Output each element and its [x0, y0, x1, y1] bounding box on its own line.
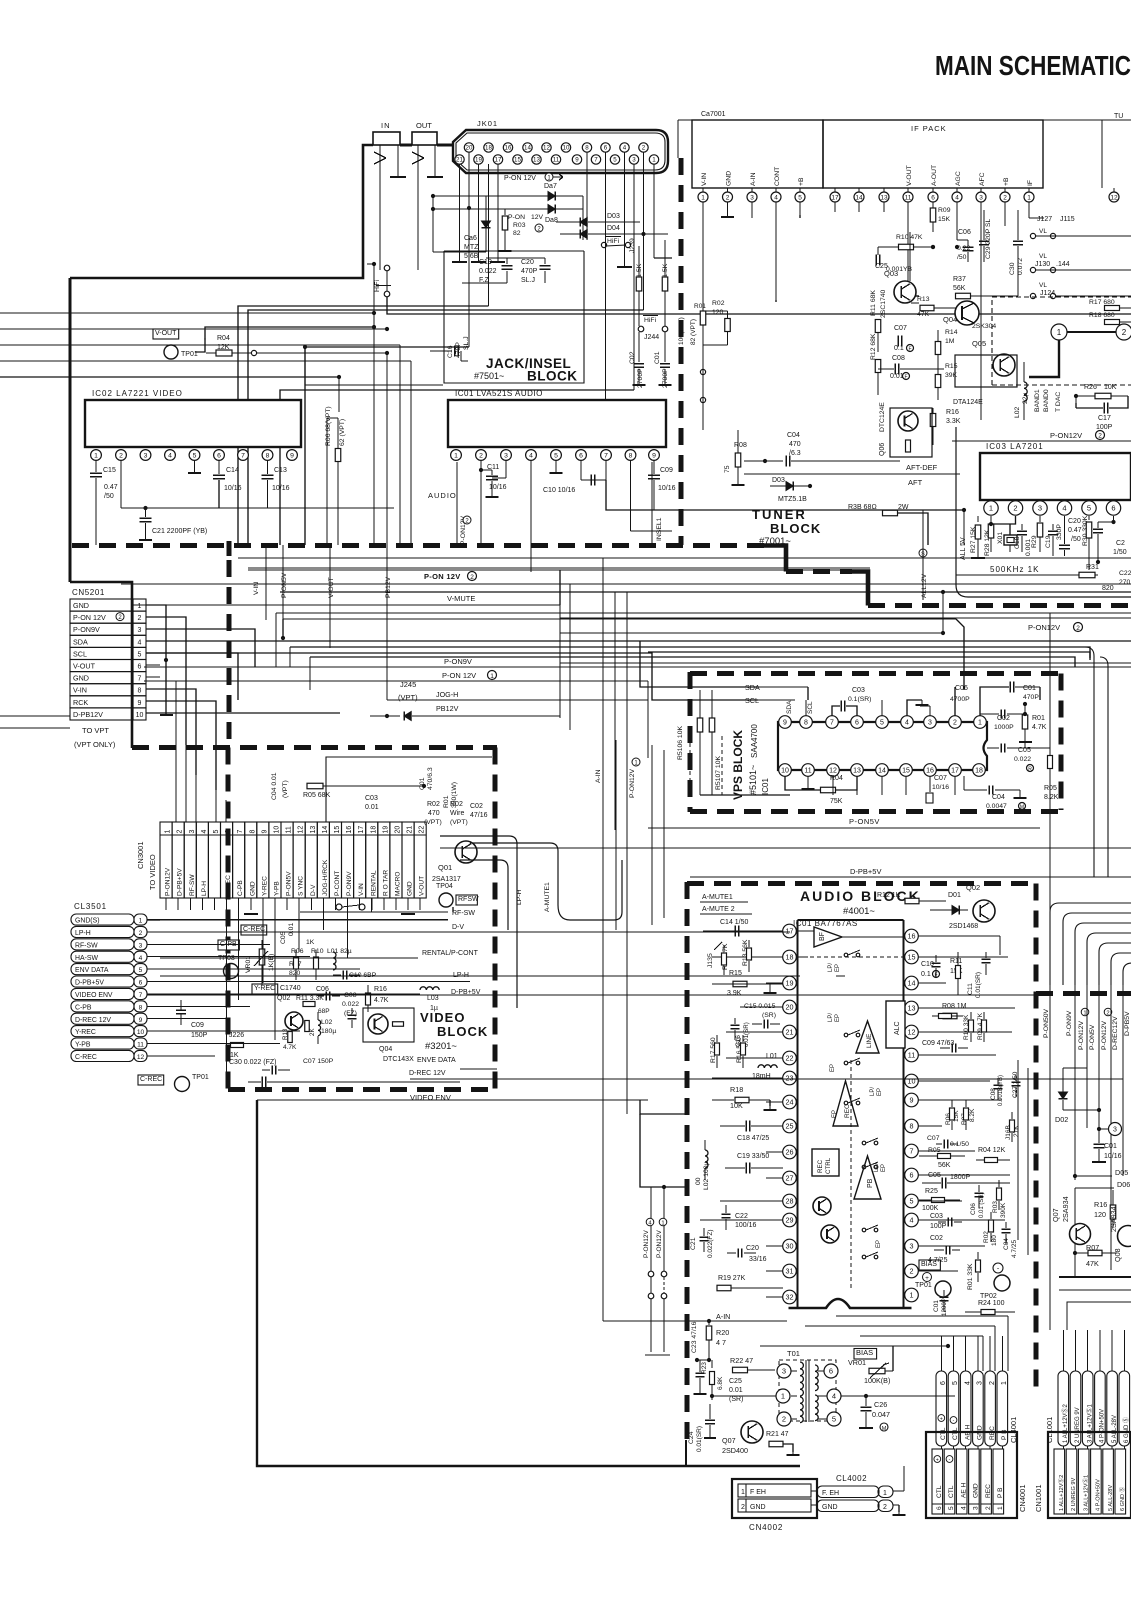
r05 body	[919, 1154, 965, 1159]
resistor R08 1M audio	[942, 1003, 967, 1019]
wire harness y570	[248, 569, 868, 571]
diode Da7	[431, 183, 583, 240]
svg-text:27: 27	[786, 1174, 794, 1183]
svg-text:10K: 10K	[1104, 384, 1117, 391]
svg-text:2: 2	[1122, 328, 1127, 337]
capacitor C10 6BP body	[333, 971, 360, 980]
svg-text:C14 1/50: C14 1/50	[720, 919, 749, 926]
svg-text:1: 1	[1083, 1011, 1086, 1017]
svg-text:9: 9	[138, 700, 142, 707]
svg-text:1: 1	[741, 1489, 745, 1496]
svg-text:1: 1	[883, 1490, 887, 1497]
wire harness y647	[290, 647, 1090, 667]
svg-text:68P: 68P	[318, 1008, 330, 1015]
wire harness right fan	[560, 618, 1131, 635]
net VL J124	[1030, 282, 1131, 299]
svg-text:L02 100µ: L02 100µ	[703, 1161, 710, 1190]
svg-text:1K: 1K	[230, 1052, 239, 1059]
wire v943	[941, 590, 945, 633]
svg-text:C22: C22	[1119, 570, 1131, 577]
svg-text:16: 16	[908, 932, 916, 941]
resistor R5106 10K body	[697, 690, 703, 795]
wire A-IN rail	[595, 713, 603, 1321]
jumper J135	[707, 942, 722, 968]
capacitor C01 470P vps	[980, 682, 1040, 717]
svg-text:TP01: TP01	[192, 1074, 209, 1081]
svg-text:0.022(FZ): 0.022(FZ)	[707, 1229, 714, 1258]
connector CN1001	[1034, 1432, 1131, 1518]
net D-PB+5V label right	[690, 867, 1131, 877]
svg-text:R31: R31	[1086, 564, 1099, 571]
svg-text:C18: C18	[1014, 536, 1021, 549]
wire cn3001 col drops	[225, 800, 227, 822]
svg-text:RENTAL: RENTAL	[370, 870, 377, 896]
svg-text:R21 47: R21 47	[766, 1431, 789, 1438]
testpoint TP01 audio	[915, 1281, 951, 1297]
cap c04 sym	[0, 0, 1, 1]
svg-text:2: 2	[1098, 433, 1102, 440]
capacitor C10 body audio	[932, 955, 941, 978]
svg-text:R5106 10K: R5106 10K	[677, 726, 684, 760]
svg-text:EP: EP	[835, 1014, 841, 1022]
capacitor C03 0.01 vpt	[365, 795, 379, 811]
wire V-IN feed	[0, 311, 376, 329]
svg-text:C08: C08	[990, 1088, 997, 1100]
wire env data run	[460, 1068, 497, 1070]
svg-text:20: 20	[395, 826, 402, 834]
resistor R06 1K	[291, 948, 304, 955]
svg-text:DTC143X: DTC143X	[383, 1056, 414, 1063]
svg-text:13: 13	[908, 1004, 916, 1013]
labels A-MUTE	[700, 894, 752, 914]
svg-text:0.01: 0.01	[365, 804, 379, 811]
wire cl4001 stubs top	[941, 1336, 1002, 1371]
svg-text:C06: C06	[955, 685, 968, 692]
svg-text:1: 1	[454, 452, 458, 459]
wire c05	[0, 0, 1, 1]
connector CN4002	[732, 1479, 817, 1532]
resistor R11 15K audio	[950, 958, 963, 975]
amp LINE	[856, 1021, 879, 1053]
T01 windings	[800, 1360, 818, 1423]
svg-text:Y-PB: Y-PB	[274, 881, 281, 896]
svg-text:P-ON5V: P-ON5V	[849, 817, 880, 826]
svg-text:J127: J127	[1037, 216, 1052, 223]
resistor R14 body	[722, 945, 727, 975]
jumper J244 HiFi	[638, 316, 668, 342]
svg-text:9: 9	[910, 1096, 914, 1105]
svg-text:J244: J244	[644, 334, 659, 341]
label CL4002	[836, 1474, 867, 1483]
resistor R14 27K rot	[722, 943, 729, 970]
wire bias vertical	[885, 1346, 893, 1371]
capacitor C23 47/16 rot	[691, 1321, 698, 1353]
wire rentals	[422, 950, 479, 957]
svg-text:3 ALL+12VⓈ1: 3 ALL+12VⓈ1	[1081, 1475, 1089, 1511]
connector CL4001	[936, 1371, 1018, 1446]
label VIDEO ENV	[410, 1093, 451, 1102]
diode D02	[1055, 1068, 1101, 1124]
svg-text:6: 6	[829, 1367, 833, 1376]
svg-text:2: 2	[119, 452, 123, 459]
IC IC01 LVA521S AUDIO	[448, 389, 666, 447]
svg-text:J226: J226	[229, 1032, 244, 1039]
svg-text:P-ON9V: P-ON9V	[73, 625, 100, 634]
ground arrow OUT	[412, 145, 424, 270]
net D-PB+5V label	[451, 989, 481, 996]
TU pin 12	[1109, 188, 1119, 202]
capacitor C14 1/50	[703, 919, 783, 937]
svg-text:26: 26	[786, 1148, 794, 1157]
svg-text:C01: C01	[654, 351, 661, 364]
svg-text:9: 9	[261, 830, 268, 834]
svg-text:270: 270	[1119, 579, 1131, 586]
jack IN	[373, 121, 400, 145]
svg-text:#4001~: #4001~	[843, 906, 875, 917]
capacitor C23 body	[694, 1360, 707, 1394]
wire vps top pins	[806, 687, 808, 716]
svg-text:1: 1	[652, 157, 656, 164]
ground vps mid	[0, 0, 1, 1]
r25 body	[919, 1198, 960, 1203]
svg-text:3: 3	[504, 452, 508, 459]
capacitor C08 YB rot	[990, 1075, 1004, 1106]
label A-IN bottom	[716, 1312, 730, 1321]
capacitor C06 video	[316, 986, 329, 993]
resistor R10 body audio	[969, 1012, 974, 1042]
svg-text:0.0047: 0.0047	[986, 803, 1007, 810]
svg-text:2: 2	[139, 930, 143, 937]
svg-text:19: 19	[382, 826, 389, 834]
wire rail	[305, 347, 606, 545]
resistor R01 330 1W rot	[443, 782, 458, 808]
capacitor C17 100P	[1075, 396, 1077, 408]
resistor J16B body	[1010, 1112, 1015, 1142]
capacitor C03 0.1(SR)	[832, 687, 871, 716]
c24 sym	[704, 1404, 716, 1438]
wire bus under audio	[606, 480, 966, 545]
IC02 pins 1-9	[91, 450, 298, 461]
wire elbow 1187	[640, 1114, 687, 1187]
svg-text:P-ON5V: P-ON5V	[286, 871, 293, 896]
wire corner bundle right mid	[0, 0, 1, 1]
capacitor C21 body audio	[700, 1228, 709, 1252]
net VL J130 .144	[1030, 253, 1131, 273]
wire SDA route	[640, 641, 758, 687]
svg-text:CN4002: CN4002	[749, 1523, 783, 1532]
svg-text:V-OUT: V-OUT	[73, 662, 96, 671]
svg-text:GND: GND	[407, 881, 414, 896]
wire corridor h860	[460, 860, 508, 930]
svg-text:VL: VL	[1039, 228, 1047, 235]
svg-text:Wire: Wire	[450, 810, 464, 817]
wire pin3	[492, 460, 506, 478]
svg-text:AUDIO BLOCK: AUDIO BLOCK	[800, 888, 921, 904]
svg-text:CL4002: CL4002	[836, 1474, 867, 1483]
svg-text:R03: R03	[513, 222, 526, 229]
block outline jack/insel	[444, 251, 584, 383]
wire left exit 2	[0, 727, 70, 729]
svg-text:3: 3	[138, 627, 142, 634]
svg-text:MAIN SCHEMATIC: MAIN SCHEMATIC	[935, 50, 1131, 81]
svg-text:HiFi: HiFi	[607, 238, 620, 245]
transistor Q06 DTC124E	[879, 402, 932, 457]
svg-text:RF-SW: RF-SW	[189, 874, 196, 896]
svg-text:17: 17	[786, 927, 794, 936]
resistor R12 1K audio	[877, 892, 946, 904]
svg-text:22: 22	[419, 826, 426, 834]
svg-text:GND: GND	[249, 881, 256, 896]
svg-text:75: 75	[724, 465, 731, 473]
wire IF pins drops	[835, 202, 1044, 420]
svg-text:VL: VL	[1039, 282, 1047, 289]
switch cols 15-16	[336, 904, 365, 910]
svg-text:13: 13	[310, 826, 317, 834]
svg-text:P-ON12V: P-ON12V	[1078, 1020, 1085, 1050]
svg-text:4: 4	[910, 1216, 914, 1225]
capacitor C08 0.022 FZ	[342, 992, 359, 1017]
svg-text:PB12V: PB12V	[436, 704, 459, 713]
svg-text:Q01: Q01	[438, 863, 452, 872]
svg-text:R10: R10	[311, 948, 324, 955]
svg-text:C30: C30	[1009, 262, 1016, 275]
svg-text:0.47: 0.47	[104, 484, 118, 491]
svg-text:+B: +B	[1003, 177, 1010, 186]
svg-text:EP: EP	[876, 1240, 882, 1248]
svg-text:6 GND Ⓢ: 6 GND Ⓢ	[1122, 1417, 1130, 1443]
svg-text:0.001B(YB): 0.001B(YB)	[998, 1075, 1004, 1106]
label C-REC box	[138, 1075, 164, 1085]
svg-text:5: 5	[554, 452, 558, 459]
svg-text:19: 19	[475, 157, 482, 164]
svg-text:4: 4	[1062, 504, 1066, 513]
svg-text:Y-REC: Y-REC	[254, 985, 275, 992]
capacitor C16 470P SL.J	[430, 336, 470, 361]
svg-text:8: 8	[139, 1004, 143, 1011]
svg-text:D03: D03	[772, 477, 785, 484]
svg-text:+B: +B	[798, 177, 805, 186]
svg-text:R08: R08	[734, 442, 747, 449]
label BIAS bottom	[854, 1348, 877, 1359]
resistor R17 560 rot	[710, 1037, 717, 1063]
svg-text:GND: GND	[822, 1504, 838, 1511]
svg-text:SDA: SDA	[73, 637, 88, 646]
svg-text:18: 18	[485, 145, 492, 152]
resistor R26 10K	[1074, 384, 1128, 399]
svg-text:A-MUTE 2: A-MUTE 2	[702, 906, 735, 913]
block TU box edge	[1101, 120, 1103, 188]
svg-text:SL.J: SL.J	[463, 336, 470, 350]
svg-text:10/16: 10/16	[489, 484, 507, 491]
capacitor C16 body	[731, 1018, 740, 1040]
svg-text:5: 5	[948, 1506, 955, 1510]
box ALC	[886, 1001, 905, 1048]
testpoint TP04 RFSW	[436, 883, 479, 907]
wire bias net	[841, 1394, 955, 1398]
svg-text:6: 6	[139, 980, 143, 987]
svg-text:C01: C01	[419, 777, 426, 790]
svg-text:LP/: LP/	[828, 1013, 834, 1022]
svg-text:1: 1	[781, 1392, 785, 1401]
capacitor C22 body	[722, 1205, 731, 1230]
svg-text:VIDEO ENV: VIDEO ENV	[410, 1093, 451, 1102]
svg-text:1 ALL+12VⓈ2: 1 ALL+12VⓈ2	[1057, 1475, 1065, 1511]
svg-text:1: 1	[701, 194, 705, 201]
wire vps bottom bus	[700, 794, 790, 796]
transistor Q05	[972, 339, 1015, 376]
svg-text:PB12V: PB12V	[385, 576, 392, 598]
diode D03 MTZ5.1B	[770, 477, 812, 503]
boundary cn5201 dashed to video block	[0, 0, 1, 1]
capacitor C03 body audio	[938, 1218, 962, 1227]
resistor R18 680 box	[1089, 312, 1131, 325]
capacitor C20 470P SL.J	[462, 258, 551, 284]
resistor R16 4.7K video	[374, 986, 389, 1004]
svg-text:2: 2	[910, 1267, 914, 1276]
svg-text:P-ON9V: P-ON9V	[346, 871, 353, 896]
svg-text:P-ON 12V: P-ON 12V	[442, 671, 476, 680]
svg-text:00: 00	[695, 1177, 702, 1185]
svg-text:Q03: Q03	[884, 269, 898, 278]
svg-text:P-ON12V: P-ON12V	[1050, 431, 1082, 440]
capacitor C27 body	[1012, 1075, 1021, 1097]
labels LP/EP internal	[828, 963, 845, 1118]
svg-text:J239: J239	[629, 238, 636, 253]
resistor R02 1.5K	[636, 246, 643, 326]
svg-text:Q02: Q02	[277, 995, 290, 1002]
wire r08 junctions	[0, 0, 1, 1]
svg-text:17: 17	[358, 826, 365, 834]
testpoint TP01 video	[175, 1074, 209, 1092]
wire bottom feeds right	[0, 0, 1, 1]
svg-text:R23: R23	[701, 1362, 708, 1374]
svg-text:R11 68K: R11 68K	[870, 290, 877, 316]
svg-text:7: 7	[594, 157, 598, 164]
svg-text:4: 4	[960, 1506, 967, 1510]
svg-text:C14: C14	[226, 467, 239, 474]
svg-text:J135: J135	[707, 953, 714, 968]
capacitor C01 2700P	[654, 332, 672, 388]
svg-text:IC01: IC01	[761, 778, 770, 795]
IC IC02 LA7221 VIDEO	[85, 389, 301, 447]
wire audio top feeds	[0, 0, 1, 1]
wire vert drop x570	[569, 584, 571, 730]
svg-text:28: 28	[786, 1197, 794, 1206]
resistor R01 body audio	[976, 1252, 981, 1282]
resistor R04 12K	[195, 327, 389, 356]
wire A-MUTE1 corridor	[470, 843, 558, 912]
wire rail V-OUT	[328, 545, 335, 648]
svg-text:RENTAL/P-CONT: RENTAL/P-CONT	[422, 950, 479, 957]
svg-text:0.01: 0.01	[729, 1387, 743, 1394]
svg-text:2W: 2W	[898, 504, 909, 511]
svg-text:C02: C02	[470, 803, 483, 810]
svg-text:D01: D01	[948, 892, 961, 899]
svg-text:470: 470	[789, 441, 801, 448]
svg-text:M: M	[1020, 805, 1024, 811]
svg-text:14: 14	[855, 194, 863, 201]
jumper J239 HiFi	[601, 237, 636, 254]
svg-text:P-ON12V: P-ON12V	[1028, 623, 1060, 632]
label JACK/INSEL BLOCK	[474, 356, 578, 384]
block Ca7001 box	[692, 120, 823, 188]
wire drop links	[908, 240, 968, 296]
wire video links	[0, 0, 1, 1]
transistor Q03 2SC1740	[880, 269, 916, 318]
resistor R16 560 body	[741, 1035, 746, 1068]
wire audio right pin extensions	[934, 936, 1015, 1271]
label DTA124E	[953, 399, 983, 406]
wire audio bottom-right links	[1059, 1290, 1131, 1330]
transistor Q07 2SD400	[722, 1421, 763, 1455]
net P-ON 12V(1)	[504, 173, 563, 182]
svg-text:1: 1	[910, 1291, 914, 1300]
wire corridor h848	[440, 847, 1131, 849]
svg-text:4: 4	[168, 452, 172, 459]
svg-text:18: 18	[975, 768, 983, 775]
svg-text:4 7: 4 7	[716, 1338, 726, 1347]
capacitor C19 0.022 F.Z	[479, 258, 513, 284]
jack OUT	[412, 121, 437, 145]
svg-text:0.1(SR): 0.1(SR)	[848, 696, 871, 703]
svg-text:0.01(SR): 0.01(SR)	[975, 972, 982, 998]
capacitor C09 150P video	[176, 1000, 208, 1039]
svg-text:4.7K: 4.7K	[1032, 724, 1047, 731]
svg-text:CN3001: CN3001	[136, 841, 145, 869]
svg-text:29: 29	[786, 1216, 794, 1225]
outer border bottom	[257, 1100, 800, 1466]
svg-text:9: 9	[290, 452, 294, 459]
capacitor C08 0.01F	[878, 355, 944, 381]
block boundary audio dashed	[687, 882, 1037, 1445]
capacitor C03 100P audio	[930, 1213, 947, 1230]
svg-text:VIDEO: VIDEO	[420, 1010, 465, 1025]
svg-text:A-MUTE1: A-MUTE1	[702, 894, 733, 901]
svg-text:3: 3	[750, 194, 754, 201]
svg-text:R01: R01	[443, 795, 450, 808]
svg-text:R02: R02	[450, 801, 463, 808]
svg-text:8: 8	[629, 452, 633, 459]
svg-text:D-PB12V: D-PB12V	[73, 710, 103, 719]
svg-text:3 ALL+12VⓈ1: 3 ALL+12VⓈ1	[1085, 1403, 1093, 1443]
capacitor C09 body	[940, 1044, 968, 1053]
res r16 body	[366, 985, 371, 1012]
svg-text:39K: 39K	[945, 372, 958, 379]
svg-text:3: 3	[782, 1367, 786, 1376]
svg-text:C15: C15	[103, 467, 116, 474]
wire	[437, 144, 454, 147]
svg-text:4.7K: 4.7K	[374, 997, 389, 1004]
svg-text:Y-REC: Y-REC	[75, 1029, 96, 1036]
wire cl4002 links	[811, 1466, 906, 1515]
svg-text:C01: C01	[1104, 1143, 1117, 1150]
resistor R07 body audio	[964, 1100, 969, 1130]
capacitor C22 100/16	[735, 1213, 757, 1229]
svg-text:D-REC 12V: D-REC 12V	[75, 1017, 111, 1024]
svg-text:22: 22	[786, 1054, 794, 1063]
svg-text:6.8K: 6.8K	[717, 1376, 724, 1390]
wire right bottom solid	[1059, 1276, 1131, 1278]
svg-text:C06: C06	[958, 229, 971, 236]
wire pin11 gnd	[802, 776, 815, 789]
svg-text:C23 47/16: C23 47/16	[691, 1321, 698, 1353]
wire harness h5	[0, 0, 1, 1]
svg-text:R01 33K: R01 33K	[967, 1263, 974, 1290]
IC01 pins 1-9	[451, 450, 660, 461]
svg-text:120: 120	[1094, 1210, 1106, 1219]
svg-text:1 ALL+12VⓈ2: 1 ALL+12VⓈ2	[1061, 1403, 1069, 1443]
svg-text:C04: C04	[992, 794, 1005, 801]
